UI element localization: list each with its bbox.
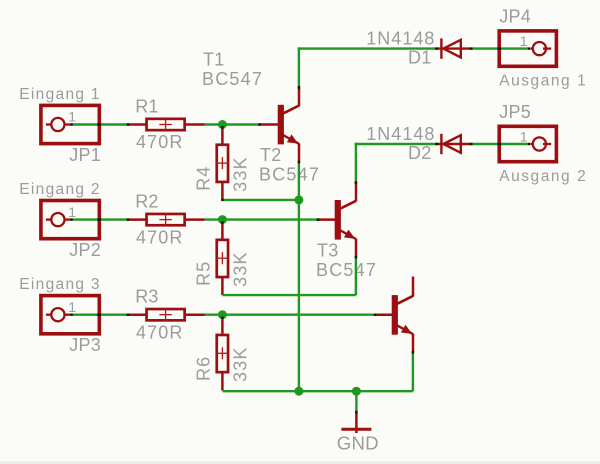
connector JP5 [499,126,556,161]
svg-text:JP3: JP3 [69,335,101,355]
junction dot 3 [218,310,227,319]
svg-text:R4: R4 [194,165,214,190]
svg-text:33K: 33K [230,251,250,287]
svg-text:R5: R5 [194,261,214,286]
pin connection marks [71,47,531,413]
connector JP1 [41,105,99,143]
resistor R5 [216,220,228,295]
resistor R2 [128,214,205,226]
svg-text:D2: D2 [408,143,431,163]
wire D2 to JP5 [471,143,528,145]
transistor T2 [317,181,357,256]
transistor T1 [260,86,300,161]
resistor R1 [128,119,205,131]
svg-text:Ausgang 1: Ausgang 1 [499,72,587,89]
junction dot 2 [218,215,227,224]
wire T3 emitter to rail [412,352,414,391]
svg-text:33K: 33K [230,156,250,192]
sheet border bottom [0,461,600,464]
svg-text:T3: T3 [317,241,338,261]
svg-text:BC547: BC547 [316,260,377,280]
svg-text:Eingang 2: Eingang 2 [19,181,101,198]
diode D2 [438,134,471,154]
wire D1 to JP4 [471,47,528,49]
svg-text:470R: 470R [136,132,183,152]
resistor R6 [216,315,228,391]
junction dot 1 [218,120,227,129]
svg-text:1: 1 [68,204,76,220]
wire R4 to T1 emitter line [222,199,299,201]
svg-text:R6: R6 [194,356,214,381]
svg-text:1: 1 [68,299,76,315]
svg-text:BC547: BC547 [259,165,320,185]
wire R3 to T3 base node [205,314,376,316]
connector JP3 [41,296,99,334]
svg-text:Ausgang 2: Ausgang 2 [499,168,587,185]
svg-text:R1: R1 [135,96,158,116]
diode D1 [438,38,471,58]
wire JP2 to R2 [71,218,128,220]
svg-text:33K: 33K [230,346,250,382]
svg-text:JP5: JP5 [499,102,531,122]
svg-text:Eingang 3: Eingang 3 [19,276,101,293]
svg-text:BC547: BC547 [202,69,263,89]
svg-text:R3: R3 [135,287,158,307]
svg-text:R2: R2 [135,192,158,212]
junction dot 6 [352,387,361,396]
svg-text:T1: T1 [203,50,224,70]
wire T2 collector to D2 [355,143,438,182]
wire JP3 to R3 [71,314,128,316]
connector JP4 [499,31,556,66]
svg-text:1N4148: 1N4148 [366,29,435,49]
wire T1 emitter to rail [298,162,300,392]
wire JP1 to R1 [71,123,128,125]
svg-text:T2: T2 [260,145,281,165]
svg-text:GND: GND [337,432,379,453]
wire R1 to T1 base node [205,123,260,125]
svg-text:1: 1 [520,128,528,144]
svg-text:JP1: JP1 [69,145,101,165]
transistor T3 [374,277,414,352]
wire rail to ground symbol [355,391,357,411]
svg-text:470R: 470R [136,322,183,342]
resistor R4 [216,125,228,200]
svg-text:470R: 470R [136,227,183,247]
wire R2 to T2 base node [205,218,319,220]
connector JP2 [41,201,99,239]
wire T1 collector to D1 [298,47,438,87]
svg-text:1N4148: 1N4148 [366,124,435,144]
svg-text:JP2: JP2 [69,240,101,260]
wire R5 to T2 emitter [222,257,356,296]
svg-text:D1: D1 [408,48,431,68]
svg-text:Eingang 1: Eingang 1 [19,86,101,103]
junction dot 5 [294,387,303,396]
junction dot 4 [294,195,303,204]
resistor R3 [128,309,205,321]
ground rail [222,390,413,392]
svg-text:1: 1 [520,33,528,49]
ground [341,412,371,433]
svg-text:JP4: JP4 [499,7,531,27]
svg-text:1: 1 [68,109,76,125]
